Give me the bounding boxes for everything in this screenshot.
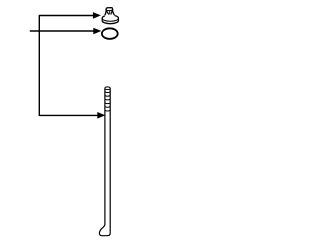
tube rib 6 — [105, 109, 110, 112]
tube top opening — [105, 87, 110, 90]
tube rib 5 — [105, 106, 110, 109]
dipstick tube body — [99, 88, 110, 236]
cap head facet edge right — [111, 11, 113, 15]
leader line to dipstick tube — [39, 114, 99, 116]
cap flange bottom arc — [102, 21, 118, 24]
leader line to O-ring — [30, 30, 94, 32]
cap flange body fill — [102, 15, 118, 24]
cap flange right side wall — [117, 18, 119, 20]
leader vertical line — [38, 16, 40, 116]
leader line to cap — [39, 15, 94, 17]
cap flange top left arc — [102, 16, 105, 18]
dipstick cap head fill — [105, 8, 115, 16]
cap head top face bottom edge — [106, 9, 112, 11]
cap head center facet line — [109, 11, 111, 15]
tube rib 3 — [105, 98, 110, 101]
cap flange left side wall — [101, 18, 103, 20]
arrowhead to dipstick tube — [97, 112, 105, 119]
O-ring — [102, 28, 118, 39]
cap flange top right arc — [114, 16, 118, 19]
arrowhead to O-ring — [93, 28, 101, 35]
dipstick cap head outline — [105, 8, 115, 16]
tube rib 4 — [105, 102, 110, 105]
cap head facet edge left — [106, 11, 108, 15]
tube rib 2 — [105, 95, 110, 98]
tube rib 1 — [105, 91, 110, 94]
arrowhead to cap — [93, 12, 101, 19]
cap flange seam line — [102, 18, 118, 21]
